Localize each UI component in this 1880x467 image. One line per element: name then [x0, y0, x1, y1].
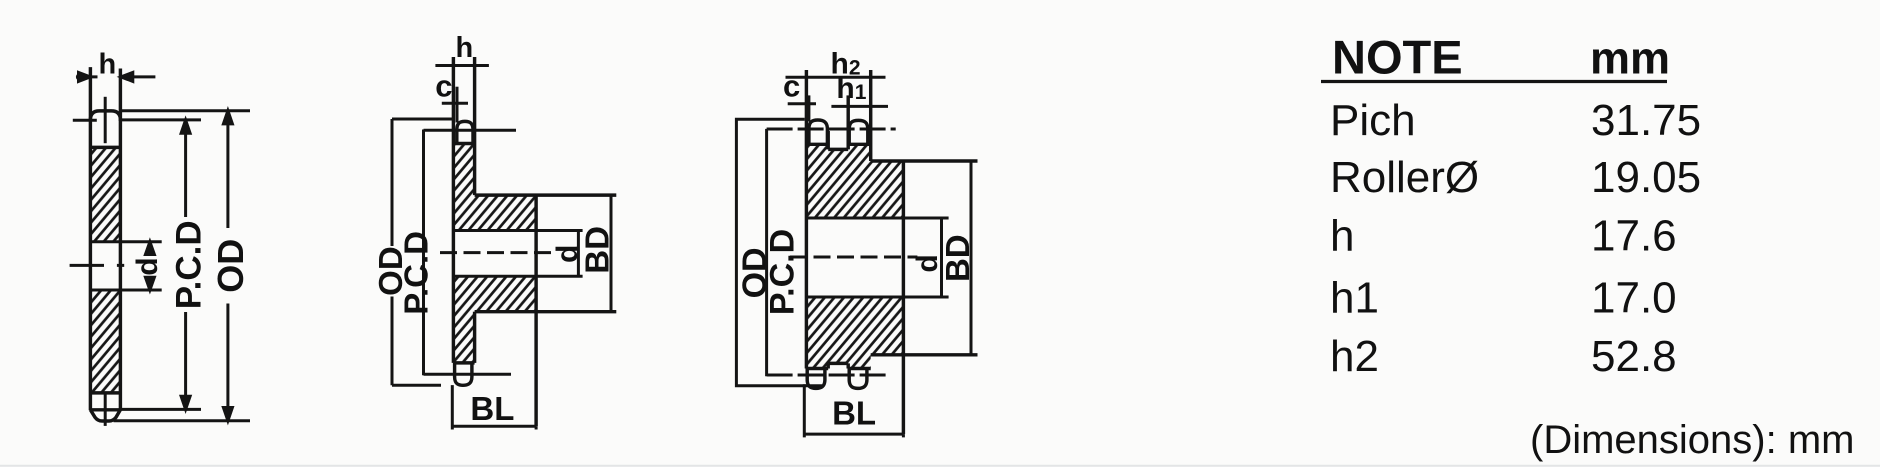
fig2 hatch lower region — [453, 276, 536, 363]
fig1 horizontal centerline dashes — [70, 264, 125, 267]
fig3 tooth2 cap — [849, 120, 868, 144]
svg-text:P.C.D: P.C.D — [170, 220, 209, 309]
fig3 hub bottom line — [871, 353, 978, 356]
fig3 OD bracket — [736, 119, 822, 386]
fig2 P.C.D top line — [424, 130, 517, 376]
fig3 plate1 bottom edges — [828, 363, 848, 368]
fig2 BD bracket — [610, 195, 613, 312]
svg-text:P.C.D: P.C.D — [764, 229, 802, 315]
fig1 pitch tick top-left — [73, 119, 97, 122]
fig3 hatch upper region — [806, 144, 903, 218]
fig3 plate1 right edge — [826, 131, 829, 149]
fig3 bore bottom line — [806, 296, 948, 299]
fig2 top tooth cap — [457, 121, 473, 143]
fig1 bottom chamfer line — [90, 408, 120, 411]
fig2 d bracket — [577, 231, 580, 277]
fig2 hub top line — [475, 193, 617, 196]
fig3 hub right face — [902, 161, 905, 434]
fig3 body left edge — [805, 70, 808, 369]
fig2 hub bottom line — [475, 310, 617, 313]
svg-text:BD: BD — [578, 226, 615, 274]
svg-text:RollerØ: RollerØ — [1330, 153, 1479, 202]
svg-text:h1: h1 — [1330, 274, 1379, 323]
svg-text:Pich: Pich — [1330, 96, 1416, 145]
fig1 P.C.D extension lines — [120, 120, 201, 410]
bottom edge faint line — [0, 465, 1880, 467]
figure 3: duplex sprocket cross-section — [790, 70, 978, 434]
fig2 OD bracket — [392, 119, 452, 385]
fig1 OD extension lines — [114, 111, 251, 421]
figure 1: single sprocket cross-section — [70, 67, 162, 426]
fig2 hatch upper region — [453, 144, 536, 231]
fig3 hub top line — [871, 159, 978, 162]
fig3 gap channel top line — [828, 148, 848, 151]
svg-text:h: h — [98, 49, 116, 81]
fig1 dimension d — [145, 242, 154, 290]
fig2 top root line — [453, 142, 474, 145]
fig3 tooth2 bottom cap — [849, 369, 867, 389]
svg-text:h: h — [455, 32, 473, 64]
fig2 BL dimension — [452, 385, 536, 429]
svg-text:17.6: 17.6 — [1591, 212, 1677, 261]
fig2 plate right edge lower — [473, 312, 476, 363]
fig2 bottom root line — [453, 361, 474, 364]
fig1 OD dimension line with arrows — [223, 111, 232, 421]
svg-text:c: c — [435, 68, 452, 103]
table header underline — [1321, 80, 1667, 83]
fig3 P.C.D bottom line — [767, 374, 888, 377]
fig1 bottom tooth centerline — [104, 393, 107, 426]
svg-text:19.05: 19.05 — [1591, 153, 1701, 202]
fig2 dashed centerline — [440, 251, 554, 254]
svg-text:BD: BD — [939, 234, 976, 282]
fig3 bore top line — [806, 217, 948, 220]
fig3 dimension h2 line — [786, 76, 886, 79]
fig2 plate left edge — [452, 57, 455, 363]
fig2 bore top line — [453, 229, 582, 232]
svg-text:c: c — [783, 69, 800, 104]
svg-text:(Dimensions): mm: (Dimensions): mm — [1530, 418, 1854, 462]
fig3 bottom root line plate2 — [848, 367, 871, 370]
fig3 gap channel bottom line — [828, 362, 848, 365]
svg-text:OD: OD — [210, 239, 251, 293]
fig3 plate2 right edge — [869, 70, 872, 161]
fig1 plate left edge — [89, 67, 92, 410]
fig1 plate right edge — [119, 69, 122, 411]
svg-text:P.C.D: P.C.D — [397, 231, 434, 315]
fig1 bore top line — [90, 240, 161, 243]
fig3 dimension c line — [788, 102, 816, 105]
fig3 dashed centerline — [790, 256, 917, 259]
fig1 bottom tooth tip — [90, 410, 120, 421]
fig3 P.C.D top line — [767, 128, 896, 131]
fig2 plate right edge upper — [473, 57, 476, 195]
fig3 top root line plate1 — [806, 143, 828, 146]
fig3 d bracket — [940, 218, 943, 297]
fig2 c extension line — [456, 87, 459, 123]
fig3 top root line plate2 — [848, 143, 871, 146]
fig3 hatch lower region — [806, 297, 903, 369]
fig1 bore bottom line — [90, 289, 161, 292]
fig3 c extension line — [807, 95, 810, 121]
fig1 hatch upper block — [92, 147, 119, 241]
svg-text:BL: BL — [470, 390, 514, 427]
fig2 dimension h line — [435, 64, 489, 67]
fig1 hatch lower block — [92, 290, 119, 393]
fig3 tooth1 bottom cap — [807, 369, 825, 389]
svg-text:52.8: 52.8 — [1591, 332, 1677, 381]
fig3 BL dimension — [804, 384, 903, 437]
svg-text:17.0: 17.0 — [1591, 274, 1677, 323]
fig3 plate2 left edge upper — [846, 95, 849, 149]
svg-text:d: d — [131, 257, 164, 275]
fig3 bottom root line plate1 — [806, 367, 828, 370]
fig2 dimension c line — [442, 102, 468, 105]
fig2 hub right face — [534, 195, 537, 426]
fig2 bottom tooth cap — [455, 363, 472, 385]
svg-text:mm: mm — [1590, 33, 1670, 84]
fig3 P.C.D bracket — [765, 129, 768, 376]
svg-text:31.75: 31.75 — [1591, 96, 1701, 145]
fig1 bottom root line — [90, 391, 120, 394]
fig3 tooth1 cap — [809, 120, 828, 144]
svg-text:h2: h2 — [1330, 332, 1379, 381]
fig1 top tooth root line — [90, 146, 120, 149]
fig1 top tooth cap — [90, 111, 120, 121]
svg-text:NOTE: NOTE — [1332, 31, 1463, 84]
svg-text:BL: BL — [832, 395, 876, 432]
fig3 BD bracket — [970, 161, 973, 355]
fig1 P.C.D dimension line with arrows — [181, 120, 190, 409]
fig1 top tooth centerline — [104, 97, 107, 143]
fig3 dimension h1 line — [831, 105, 888, 108]
svg-text:h: h — [1330, 212, 1354, 261]
fig1 dimension h — [76, 72, 155, 81]
figure 2: sprocket with hub cross-section — [440, 57, 616, 426]
fig2 bore bottom line — [453, 275, 582, 278]
